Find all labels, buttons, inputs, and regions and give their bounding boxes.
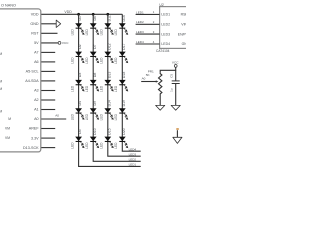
LED D12: [100, 43, 114, 63]
wire: U1 pin A6 stub: [41, 61, 55, 63]
svg-text:D15: D15: [107, 128, 111, 134]
svg-text:A7: A7: [34, 51, 39, 55]
svg-text:D2: D2: [78, 44, 82, 49]
svg-text:LED: LED: [100, 57, 104, 64]
svg-text:D6: D6: [93, 16, 97, 21]
svg-text:LED: LED: [100, 29, 104, 36]
LED D5: [70, 129, 84, 148]
LED D15: [100, 128, 114, 148]
wire: net LED4 to U2 pin 4: [136, 43, 160, 45]
svg-text:VDD: VDD: [31, 13, 39, 17]
svg-text:CAT4104: CAT4104: [156, 49, 170, 53]
svg-text:O NANO: O NANO: [1, 4, 16, 8]
svg-text:D1: D1: [78, 16, 82, 21]
svg-text:A5-SCL: A5-SCL: [26, 70, 39, 74]
svg-text:LED3: LED3: [129, 152, 137, 156]
wire: net LED1 to U2 pin 1: [136, 13, 160, 15]
svg-text:LED: LED: [114, 29, 118, 36]
svg-text:3: 3: [153, 30, 155, 34]
svg-text:RSET: RSET: [181, 13, 186, 17]
svg-text:1u: 1u: [170, 88, 174, 92]
svg-text:D4: D4: [78, 101, 82, 106]
wire: net LED2 to U2 pin 2: [136, 23, 160, 25]
orange sheet-pin mark at right edge: [176, 128, 179, 130]
svg-text:A6: A6: [34, 60, 39, 64]
wire: U1 pin A0 stub: [41, 118, 66, 120]
svg-text:A1: A1: [34, 108, 39, 112]
svg-text:VDD: VDD: [64, 10, 72, 14]
svg-text:D13-SCK: D13-SCK: [23, 146, 39, 150]
svg-text:1: 1: [153, 10, 155, 14]
svg-text:A3: A3: [34, 89, 39, 93]
svg-text:D13: D13: [107, 72, 111, 78]
svg-text:LED: LED: [85, 142, 89, 149]
svg-text:M: M: [0, 109, 2, 113]
svg-text:LED: LED: [85, 29, 89, 36]
svg-text:D20: D20: [122, 128, 126, 134]
wire: LED column 1 vertical + bottom run: [79, 14, 141, 166]
ground at right edge: [173, 137, 182, 143]
svg-text:D8: D8: [93, 73, 97, 78]
svg-text:U2: U2: [159, 3, 163, 7]
svg-text:A0: A0: [142, 77, 146, 81]
LED D14: [100, 100, 114, 120]
svg-text:D11: D11: [107, 15, 111, 21]
junction dot on VDD rail, column 1: [77, 13, 80, 16]
svg-text:D14: D14: [107, 100, 111, 106]
LED D19: [114, 100, 128, 120]
GND open-arrow terminal: [56, 20, 61, 27]
LED D3: [70, 73, 84, 92]
svg-text:D17: D17: [122, 43, 126, 49]
svg-text:LED1: LED1: [129, 163, 137, 167]
capacitor C5: [175, 70, 177, 80]
wire VDD pin to rail: [41, 13, 122, 15]
svg-text:LED: LED: [85, 57, 89, 64]
svg-text:LED: LED: [114, 142, 118, 149]
svg-text:LED: LED: [70, 29, 74, 36]
wire: U1 pin D13-SCK stub: [41, 147, 55, 149]
svg-text:D10: D10: [93, 128, 97, 134]
svg-text:LED: LED: [85, 113, 89, 120]
svg-text:LED: LED: [114, 113, 118, 120]
LED D13: [100, 72, 114, 92]
LED D7: [85, 44, 99, 63]
junction dot on VDD rail, column 3: [106, 13, 109, 16]
LED D18: [114, 72, 128, 92]
svg-text:LED4: LED4: [136, 40, 144, 44]
svg-text:D9: D9: [93, 101, 97, 106]
LED D17: [114, 43, 128, 63]
svg-text:VIN: VIN: [181, 23, 186, 27]
svg-text:VCC: VCC: [62, 41, 69, 45]
svg-text:LED: LED: [70, 57, 74, 64]
LED D11: [100, 15, 114, 35]
wire: U1 pin A5-SCL stub: [41, 70, 55, 72]
svg-text:C5: C5: [170, 74, 174, 78]
svg-text:LED: LED: [85, 85, 89, 92]
wire: LED column 4 vertical + bottom run: [122, 14, 140, 151]
wire: U1 pin A3 stub: [41, 90, 55, 92]
svg-text:M: M: [0, 79, 2, 83]
svg-text:D3: D3: [78, 73, 82, 78]
VCC power port on 5V pin: [58, 42, 61, 45]
Arduino Nano U1 symbol body: [0, 9, 41, 152]
svg-text:VM: VM: [5, 136, 10, 140]
svg-text:LED: LED: [100, 113, 104, 120]
svg-text:M: M: [8, 117, 11, 121]
U2 LED driver symbol body: [160, 7, 194, 49]
svg-text:D18: D18: [122, 72, 126, 78]
wire: LED column 2 vertical + bottom run: [93, 14, 141, 161]
svg-text:VCC: VCC: [172, 60, 179, 64]
wire: U1 pin AREF stub: [41, 128, 55, 130]
LED D1: [70, 16, 84, 35]
svg-text:GND: GND: [30, 22, 39, 26]
svg-text:3.3V: 3.3V: [31, 136, 39, 140]
svg-text:LED3: LED3: [161, 32, 170, 36]
LED D8: [85, 73, 99, 92]
svg-text:EN/PWM: EN/PWM: [178, 32, 186, 36]
svg-text:D7: D7: [93, 44, 97, 49]
svg-text:D5: D5: [78, 129, 82, 134]
wire: U1 pin GND stub: [41, 23, 56, 25]
svg-text:LED4: LED4: [129, 147, 137, 151]
LED D9: [85, 101, 99, 120]
svg-text:LED: LED: [100, 142, 104, 149]
svg-text:M: M: [0, 87, 2, 91]
wire: U1 pin A2 stub: [41, 99, 55, 101]
svg-text:LED2: LED2: [136, 20, 144, 24]
junction dot on VDD rail, column 2: [92, 13, 95, 16]
svg-text:AREF: AREF: [29, 127, 40, 131]
ground under C5: [171, 105, 180, 110]
potentiometer PR1 5K: [159, 72, 162, 95]
LED D4: [70, 101, 84, 120]
svg-text:LED1: LED1: [161, 13, 170, 17]
svg-text:LED3: LED3: [136, 30, 144, 34]
svg-text:2: 2: [153, 20, 155, 24]
LED D6: [85, 16, 99, 35]
wire: U1 pin 5V stub: [41, 42, 58, 44]
wire: U1 pin 3.3V stub: [41, 137, 55, 139]
svg-text:LED: LED: [114, 85, 118, 92]
svg-text:LED: LED: [114, 57, 118, 64]
svg-text:A4-SDA: A4-SDA: [25, 79, 39, 83]
wire: U1 pin RST stub: [41, 32, 57, 34]
svg-text:LED1: LED1: [136, 10, 144, 14]
svg-text:D19: D19: [122, 100, 126, 106]
wire: U1 pin A7 stub: [41, 51, 55, 53]
svg-text:RST: RST: [31, 32, 39, 36]
wire VCC to pot and cap: [160, 67, 176, 72]
svg-text:D16: D16: [122, 15, 126, 21]
wire: net LED3 to U2 pin 3: [136, 33, 160, 35]
wire: U1 pin A4-SDA stub: [41, 80, 55, 82]
LED D16: [114, 15, 128, 35]
svg-text:D12: D12: [107, 43, 111, 49]
svg-text:5K: 5K: [146, 73, 151, 77]
svg-text:4: 4: [153, 40, 155, 44]
svg-text:LED4: LED4: [161, 42, 170, 46]
LED D20: [114, 128, 128, 148]
wire: LED column 3 vertical + bottom run: [108, 14, 141, 156]
PR1 wiper arrow: [141, 81, 157, 83]
svg-text:LED: LED: [100, 85, 104, 92]
svg-text:A2: A2: [34, 98, 39, 102]
svg-text:LED2: LED2: [161, 23, 170, 27]
svg-text:A0: A0: [34, 117, 39, 121]
svg-text:LED: LED: [70, 85, 74, 92]
svg-text:A0: A0: [55, 113, 59, 117]
svg-text:LED: LED: [70, 142, 74, 149]
svg-text:M: M: [0, 52, 2, 56]
svg-text:5V: 5V: [34, 41, 39, 45]
svg-text:LED2: LED2: [129, 158, 137, 162]
ground under PR1: [159, 95, 161, 105]
wire to right-edge ground: [176, 130, 178, 137]
svg-text:VM: VM: [5, 127, 10, 131]
svg-text:GND: GND: [182, 42, 186, 46]
svg-text:LED: LED: [70, 113, 74, 120]
LED D2: [70, 44, 84, 63]
wire: U1 pin A1 stub: [41, 109, 55, 111]
LED D10: [85, 128, 99, 148]
